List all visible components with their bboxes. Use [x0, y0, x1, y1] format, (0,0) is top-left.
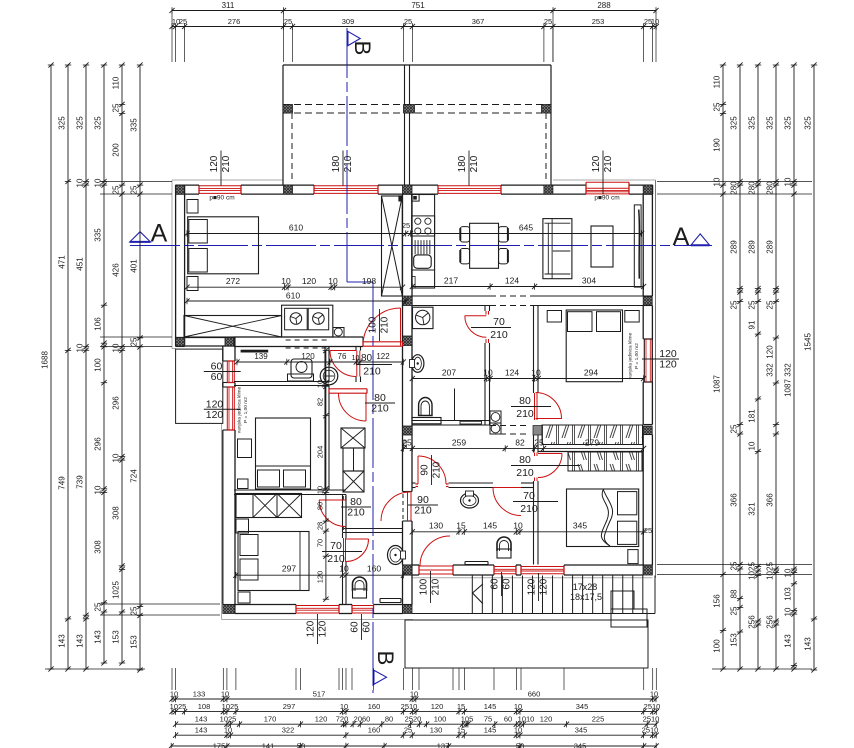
svg-text:272: 272	[226, 276, 240, 286]
svg-text:100: 100	[419, 578, 430, 595]
svg-text:204: 204	[315, 446, 324, 459]
svg-text:210: 210	[343, 155, 354, 172]
svg-text:210: 210	[380, 316, 391, 333]
svg-text:120: 120	[591, 155, 602, 172]
svg-text:25: 25	[130, 606, 139, 615]
svg-text:25: 25	[400, 440, 409, 448]
svg-text:2510: 2510	[642, 726, 659, 735]
svg-text:335: 335	[130, 118, 139, 132]
svg-text:279: 279	[585, 437, 599, 447]
svg-text:143: 143	[58, 634, 67, 648]
svg-text:210: 210	[603, 155, 614, 172]
svg-text:170: 170	[264, 715, 277, 724]
svg-text:25: 25	[730, 300, 739, 309]
svg-text:82: 82	[515, 437, 525, 447]
svg-text:210: 210	[520, 503, 538, 515]
svg-text:325: 325	[58, 116, 67, 130]
svg-text:60: 60	[362, 621, 373, 633]
svg-text:2510: 2510	[643, 715, 660, 724]
svg-text:10: 10	[315, 380, 324, 388]
svg-text:304: 304	[582, 276, 596, 286]
svg-text:289: 289	[766, 240, 775, 254]
svg-text:345: 345	[573, 520, 587, 530]
svg-text:280: 280	[730, 181, 739, 195]
svg-text:60: 60	[211, 371, 223, 383]
svg-text:1025: 1025	[222, 702, 239, 711]
svg-text:120: 120	[306, 620, 317, 637]
svg-text:10: 10	[224, 726, 232, 735]
svg-text:296: 296	[112, 396, 121, 410]
svg-text:1087: 1087	[784, 379, 793, 397]
svg-text:91: 91	[748, 320, 757, 329]
svg-text:80: 80	[361, 353, 373, 364]
svg-text:60: 60	[502, 578, 513, 590]
svg-text:p■90 cm: p■90 cm	[209, 195, 234, 202]
svg-text:1545: 1545	[804, 333, 813, 351]
svg-text:198: 198	[362, 276, 376, 286]
svg-text:70: 70	[523, 490, 535, 502]
svg-text:10: 10	[94, 178, 103, 187]
svg-text:130: 130	[429, 520, 443, 530]
svg-text:100: 100	[434, 715, 447, 724]
svg-text:vanjska jedinica klime: vanjska jedinica klime	[237, 386, 243, 433]
svg-text:200: 200	[112, 143, 121, 157]
svg-text:18x17,5: 18x17,5	[570, 592, 602, 602]
svg-text:10: 10	[170, 690, 178, 699]
svg-text:58: 58	[297, 742, 305, 748]
svg-text:105: 105	[461, 715, 474, 724]
svg-text:256: 256	[748, 615, 757, 629]
svg-text:751: 751	[411, 1, 425, 10]
svg-text:308: 308	[112, 506, 121, 520]
svg-text:210: 210	[363, 366, 381, 378]
svg-text:28: 28	[315, 522, 324, 530]
svg-text:610: 610	[289, 223, 303, 233]
svg-text:10: 10	[112, 453, 121, 462]
svg-text:280: 280	[766, 181, 775, 195]
svg-text:10: 10	[76, 343, 85, 352]
svg-text:210: 210	[414, 505, 432, 517]
svg-text:210: 210	[469, 155, 480, 172]
svg-text:308: 308	[94, 540, 103, 554]
svg-text:332: 332	[766, 363, 775, 377]
svg-text:180: 180	[457, 155, 468, 172]
svg-text:256: 256	[766, 615, 775, 629]
svg-text:210: 210	[371, 403, 389, 415]
svg-text:25: 25	[112, 103, 121, 112]
svg-text:P = 1,00 m2: P = 1,00 m2	[243, 397, 249, 423]
svg-text:160: 160	[368, 726, 381, 735]
svg-text:139: 139	[254, 352, 268, 361]
svg-text:610: 610	[286, 291, 300, 301]
svg-text:25: 25	[404, 726, 412, 735]
svg-text:325: 325	[748, 116, 757, 130]
svg-text:210: 210	[516, 467, 534, 479]
svg-text:366: 366	[730, 493, 739, 507]
svg-text:366: 366	[766, 493, 775, 507]
svg-text:25: 25	[402, 221, 410, 230]
svg-text:25: 25	[748, 300, 757, 309]
svg-text:325: 325	[94, 116, 103, 130]
svg-text:120: 120	[766, 345, 775, 359]
svg-text:25: 25	[713, 102, 722, 111]
svg-text:80: 80	[519, 454, 531, 466]
svg-text:15: 15	[456, 520, 466, 530]
svg-text:25: 25	[534, 437, 544, 447]
svg-text:25: 25	[94, 602, 103, 611]
svg-text:25: 25	[730, 424, 739, 433]
svg-text:1025: 1025	[170, 702, 187, 711]
svg-text:10: 10	[281, 276, 291, 286]
svg-text:120: 120	[431, 702, 444, 711]
svg-text:210: 210	[431, 578, 442, 595]
svg-text:10: 10	[748, 441, 757, 450]
svg-text:401: 401	[130, 259, 139, 273]
svg-text:345: 345	[576, 702, 589, 711]
svg-text:25: 25	[544, 17, 552, 26]
svg-text:145: 145	[483, 520, 497, 530]
svg-text:2510: 2510	[401, 702, 418, 711]
svg-text:210: 210	[221, 155, 232, 172]
svg-text:25: 25	[130, 337, 139, 346]
svg-text:60: 60	[504, 715, 512, 724]
svg-text:106: 106	[94, 317, 103, 331]
svg-text:25: 25	[179, 17, 187, 26]
svg-text:296: 296	[94, 437, 103, 451]
svg-text:210: 210	[516, 408, 534, 420]
svg-text:10: 10	[339, 564, 349, 574]
svg-text:17x28: 17x28	[573, 582, 598, 592]
svg-text:426: 426	[112, 263, 121, 277]
svg-text:207: 207	[442, 368, 456, 378]
svg-text:297: 297	[282, 564, 296, 574]
svg-text:660: 660	[528, 690, 541, 699]
svg-text:100: 100	[368, 316, 379, 333]
svg-text:B: B	[350, 41, 375, 56]
svg-text:259: 259	[452, 437, 466, 447]
svg-text:2520: 2520	[405, 715, 422, 724]
svg-text:25: 25	[644, 526, 652, 535]
svg-text:160: 160	[367, 564, 381, 574]
svg-text:190: 190	[713, 138, 722, 152]
svg-text:160: 160	[368, 702, 381, 711]
svg-text:P = 1,00 m2: P = 1,00 m2	[634, 343, 640, 369]
svg-text:120: 120	[539, 578, 550, 595]
svg-text:p■90 cm: p■90 cm	[594, 195, 619, 202]
svg-text:10: 10	[650, 690, 658, 699]
svg-text:10: 10	[112, 343, 121, 352]
svg-text:120: 120	[527, 578, 538, 595]
svg-text:321: 321	[748, 502, 757, 516]
svg-text:141: 141	[262, 742, 275, 748]
svg-text:280: 280	[748, 181, 757, 195]
svg-text:124: 124	[505, 368, 519, 378]
svg-text:739: 739	[76, 475, 85, 489]
svg-text:25: 25	[730, 606, 739, 615]
svg-text:1688: 1688	[41, 351, 50, 369]
svg-text:10: 10	[221, 690, 229, 699]
svg-text:120: 120	[315, 715, 328, 724]
svg-text:180: 180	[331, 155, 342, 172]
svg-text:100: 100	[94, 358, 103, 372]
svg-text:288: 288	[597, 1, 611, 10]
svg-text:143: 143	[784, 634, 793, 648]
svg-text:143: 143	[94, 630, 103, 644]
svg-text:75: 75	[484, 715, 492, 724]
svg-text:80: 80	[315, 502, 324, 510]
svg-text:253: 253	[592, 17, 605, 26]
svg-text:225: 225	[592, 715, 605, 724]
svg-text:A: A	[673, 223, 690, 251]
svg-text:325: 325	[766, 116, 775, 130]
svg-text:10: 10	[514, 702, 522, 711]
svg-text:70: 70	[315, 539, 324, 547]
svg-text:25: 25	[112, 185, 121, 194]
svg-text:120: 120	[315, 571, 324, 584]
svg-text:10: 10	[328, 276, 338, 286]
svg-text:210: 210	[347, 507, 365, 519]
svg-text:vanjska jedinica klime: vanjska jedinica klime	[628, 332, 634, 379]
svg-text:345: 345	[574, 742, 587, 748]
svg-text:25: 25	[130, 185, 139, 194]
svg-text:25: 25	[730, 561, 739, 570]
svg-text:720: 720	[336, 715, 349, 724]
svg-text:80: 80	[385, 715, 393, 724]
svg-text:335: 335	[94, 228, 103, 242]
svg-text:10: 10	[531, 368, 541, 378]
svg-text:B: B	[373, 651, 398, 666]
svg-text:210: 210	[327, 553, 345, 565]
svg-text:10: 10	[784, 607, 793, 616]
svg-text:10: 10	[410, 690, 418, 699]
svg-text:25: 25	[284, 17, 292, 26]
svg-text:120: 120	[659, 359, 677, 371]
svg-text:2060: 2060	[354, 715, 371, 724]
svg-text:1025: 1025	[112, 581, 121, 599]
svg-text:122: 122	[376, 352, 390, 361]
svg-text:82: 82	[315, 398, 324, 406]
svg-text:120: 120	[209, 155, 220, 172]
svg-text:10: 10	[784, 568, 793, 577]
svg-text:297: 297	[283, 702, 296, 711]
svg-text:100: 100	[713, 639, 722, 653]
svg-text:70: 70	[330, 540, 342, 552]
svg-text:471: 471	[58, 255, 67, 269]
svg-text:724: 724	[130, 469, 139, 483]
svg-text:133: 133	[193, 690, 206, 699]
svg-text:10: 10	[651, 17, 659, 26]
svg-text:276: 276	[228, 17, 241, 26]
svg-text:517: 517	[313, 690, 326, 699]
svg-text:120: 120	[206, 409, 224, 421]
svg-text:325: 325	[804, 116, 813, 130]
svg-text:325: 325	[730, 116, 739, 130]
svg-text:120: 120	[318, 620, 329, 637]
svg-text:124: 124	[505, 276, 519, 286]
svg-text:1010: 1010	[518, 715, 535, 724]
svg-text:10: 10	[513, 520, 523, 530]
svg-text:58: 58	[516, 742, 524, 748]
svg-text:153: 153	[130, 635, 139, 649]
svg-text:110: 110	[713, 75, 722, 88]
svg-text:60: 60	[350, 621, 361, 633]
svg-text:76: 76	[338, 352, 347, 361]
svg-text:10: 10	[315, 486, 324, 494]
svg-text:25: 25	[766, 300, 775, 309]
svg-text:60: 60	[490, 578, 501, 590]
svg-text:309: 309	[342, 17, 355, 26]
svg-text:143: 143	[76, 634, 85, 648]
svg-text:10: 10	[352, 355, 360, 362]
svg-text:120: 120	[540, 715, 553, 724]
svg-text:80: 80	[519, 395, 531, 407]
svg-text:130: 130	[430, 726, 443, 735]
svg-text:88: 88	[730, 589, 739, 598]
svg-text:2510: 2510	[644, 702, 661, 711]
svg-text:10: 10	[340, 702, 348, 711]
svg-text:749: 749	[58, 476, 67, 490]
svg-text:153: 153	[730, 633, 739, 647]
svg-text:645: 645	[519, 223, 533, 233]
svg-text:217: 217	[444, 276, 458, 286]
svg-text:137: 137	[437, 742, 450, 748]
svg-text:325: 325	[76, 116, 85, 130]
svg-text:367: 367	[472, 17, 485, 26]
svg-text:143: 143	[804, 637, 813, 651]
svg-text:10: 10	[94, 485, 103, 494]
svg-text:70: 70	[493, 316, 505, 328]
svg-text:10: 10	[76, 178, 85, 187]
svg-text:1087: 1087	[713, 375, 722, 393]
svg-text:325: 325	[784, 116, 793, 130]
svg-text:10: 10	[483, 368, 493, 378]
svg-text:110: 110	[112, 76, 121, 89]
svg-text:143: 143	[195, 715, 208, 724]
svg-text:175: 175	[213, 742, 226, 748]
svg-text:90: 90	[420, 464, 431, 476]
svg-text:A: A	[151, 220, 168, 248]
svg-text:153: 153	[112, 630, 121, 644]
svg-text:120: 120	[301, 352, 315, 361]
svg-text:15: 15	[457, 726, 465, 735]
svg-text:451: 451	[76, 257, 85, 271]
svg-text:289: 289	[748, 240, 757, 254]
svg-text:145: 145	[484, 702, 497, 711]
svg-text:143: 143	[195, 726, 208, 735]
svg-text:103: 103	[784, 587, 793, 601]
svg-text:1025: 1025	[220, 715, 237, 724]
svg-text:15: 15	[457, 702, 465, 711]
svg-text:145: 145	[484, 726, 497, 735]
svg-text:311: 311	[222, 1, 235, 10]
svg-text:120: 120	[302, 276, 316, 286]
svg-text:322: 322	[282, 726, 295, 735]
svg-text:25: 25	[404, 17, 412, 26]
svg-text:294: 294	[584, 368, 598, 378]
svg-text:108: 108	[198, 702, 211, 711]
svg-text:345: 345	[575, 726, 588, 735]
svg-text:289: 289	[730, 240, 739, 254]
svg-text:210: 210	[490, 329, 508, 341]
svg-text:332: 332	[784, 363, 793, 377]
svg-text:210: 210	[432, 461, 443, 478]
svg-text:10: 10	[514, 726, 522, 735]
svg-text:181: 181	[748, 409, 757, 423]
svg-text:156: 156	[713, 594, 722, 608]
